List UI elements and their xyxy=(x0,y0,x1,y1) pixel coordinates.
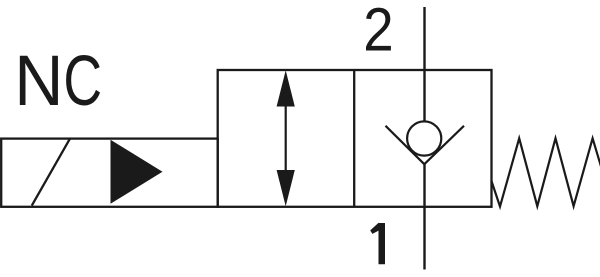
two-way arrow head down xyxy=(277,170,295,206)
valve body outline xyxy=(218,70,492,207)
svg-text:2: 2 xyxy=(363,0,393,64)
check valve seat left xyxy=(386,126,425,164)
two-way arrow head up xyxy=(277,70,295,106)
solenoid S1 diagonal stroke xyxy=(32,139,70,206)
port label 1 (flag) xyxy=(370,223,378,234)
check valve seat right xyxy=(424,126,464,164)
port label 1 (stem) xyxy=(379,223,386,264)
svg-text:C: C xyxy=(63,42,102,121)
two-way arrow shaft xyxy=(285,95,287,182)
check valve ball C1 xyxy=(407,121,441,155)
valve position divider wire xyxy=(353,70,355,207)
port 2 wire (top) xyxy=(423,7,425,122)
solenoid S1 box xyxy=(1,139,218,207)
solenoid flow triangle (filled, pointing right) xyxy=(111,140,163,204)
spring xyxy=(491,138,600,206)
svg-text:N: N xyxy=(14,41,63,121)
port 1 wire (bottom) xyxy=(423,164,425,270)
